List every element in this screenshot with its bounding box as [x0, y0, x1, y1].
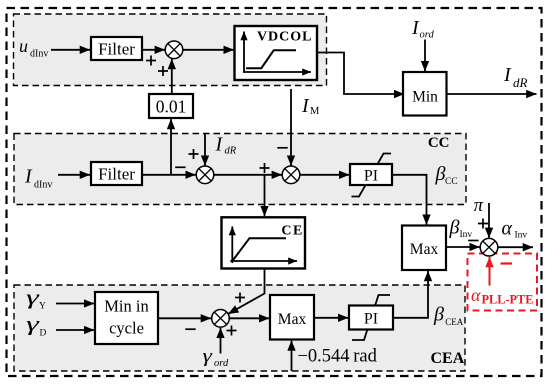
- svg-text:β: β: [449, 217, 460, 239]
- svg-text:I: I: [24, 166, 33, 188]
- svg-text:Min in: Min in: [104, 297, 148, 316]
- svg-text:PI: PI: [364, 168, 378, 185]
- svg-text:Min: Min: [412, 89, 438, 106]
- svg-text:Max: Max: [278, 311, 307, 328]
- svg-text:I: I: [215, 134, 224, 156]
- svg-text:CE: CE: [281, 223, 304, 238]
- svg-text:Filter: Filter: [98, 40, 135, 59]
- svg-text:PLL-PTE: PLL-PTE: [482, 293, 534, 307]
- svg-text:γ: γ: [203, 345, 213, 366]
- svg-text:D: D: [40, 329, 47, 339]
- svg-text:π: π: [474, 196, 484, 216]
- svg-text:PI: PI: [364, 311, 378, 328]
- svg-text:γ: γ: [26, 312, 40, 334]
- svg-text:CEA: CEA: [445, 317, 464, 327]
- svg-text:dR: dR: [225, 146, 237, 157]
- svg-text:u: u: [19, 36, 28, 56]
- svg-text:dInv: dInv: [34, 180, 52, 191]
- svg-text:Max: Max: [410, 241, 439, 258]
- svg-text:−0.544 rad: −0.544 rad: [298, 347, 378, 367]
- svg-text:Y: Y: [39, 302, 46, 312]
- svg-text:ord: ord: [420, 30, 435, 41]
- svg-text:Inv: Inv: [460, 230, 473, 240]
- svg-text:I: I: [503, 64, 512, 86]
- svg-text:CC: CC: [428, 135, 450, 151]
- svg-text:β: β: [435, 163, 446, 185]
- svg-text:M: M: [310, 106, 320, 117]
- svg-text:β: β: [433, 304, 444, 326]
- svg-text:cycle: cycle: [109, 319, 144, 338]
- svg-text:α: α: [502, 218, 513, 240]
- svg-text:α: α: [471, 285, 481, 305]
- svg-text:I: I: [301, 95, 310, 117]
- svg-text:dInv: dInv: [30, 49, 48, 60]
- svg-text:CC: CC: [445, 177, 458, 187]
- svg-text:ord: ord: [214, 358, 229, 369]
- svg-text:Filter: Filter: [98, 165, 135, 184]
- svg-text:0.01: 0.01: [156, 97, 187, 117]
- svg-text:Inv: Inv: [515, 231, 528, 241]
- svg-text:CEA: CEA: [431, 350, 465, 367]
- svg-text:VDCOL: VDCOL: [257, 29, 313, 44]
- svg-text:dR: dR: [513, 75, 528, 90]
